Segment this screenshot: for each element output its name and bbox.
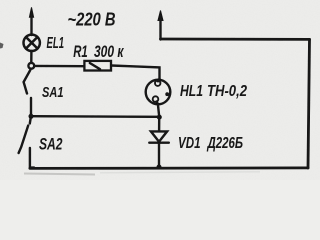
neon lamp HL1 (146, 79, 171, 104)
wire lamp to SA1 (30, 51, 33, 63)
right rail (308, 39, 310, 168)
switch SA1 (24, 63, 35, 116)
wire resistor to HL1 (112, 66, 160, 81)
scan smudge left edge (0, 43, 4, 49)
bottom rail (30, 166, 308, 169)
resistor R1 (84, 61, 111, 71)
scan shadow under bottom rail (24, 174, 95, 175)
switch SA2 (19, 119, 34, 168)
junction dot SA1/SA2 (29, 114, 34, 119)
mains terminal arrow left (29, 7, 33, 35)
paper background (0, 0, 320, 180)
lamp EL1 (24, 35, 40, 51)
top rail (161, 38, 310, 41)
scan noise over everything (0, 0, 320, 180)
diode VD1 (149, 118, 169, 167)
mid wire node SA1 to node B (31, 115, 159, 118)
node B junction dot (157, 115, 162, 120)
mains terminal arrow right (158, 11, 163, 40)
junction dot diode-bottom (157, 165, 162, 170)
wire HL1 to node B (158, 104, 159, 117)
node A wire to resistor (34, 65, 84, 68)
